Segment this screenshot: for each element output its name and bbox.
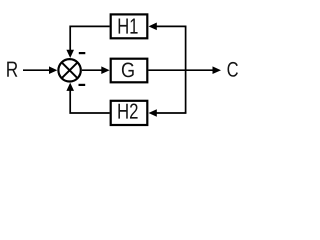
wire summing junction to block G — [82, 69, 102, 71]
summing junction S1 X diagonal 2 — [62, 63, 77, 78]
wire tap to H2 input — [156, 112, 185, 113]
arrowhead into summing junction bottom — [66, 83, 74, 91]
wire H1 output toward junction — [70, 26, 109, 50]
summing junction S1 circle — [58, 59, 80, 81]
wire tap to H1 input — [156, 26, 185, 27]
block H2 box — [111, 101, 148, 125]
summing junction S1 X diagonal 1 — [62, 63, 77, 78]
arrowhead into summing junction top — [66, 50, 74, 58]
block H2 label — [118, 104, 137, 119]
wire H2 output toward junction — [70, 90, 109, 113]
minus sign at bottom feedback input — [79, 84, 86, 86]
block H1 box — [111, 14, 148, 38]
block G label — [122, 63, 134, 78]
arrowhead into H1 — [149, 23, 157, 31]
arrowhead into summing junction left — [49, 66, 57, 74]
block H1 label — [119, 19, 138, 34]
node R label — [7, 62, 17, 77]
feedback tap vertical wire — [185, 26, 187, 113]
wire R to summing junction — [23, 69, 50, 71]
arrowhead into H2 — [149, 109, 157, 117]
arrowhead at C output — [213, 66, 222, 74]
block G box — [111, 59, 148, 83]
arrowhead into block G — [101, 66, 109, 74]
minus sign at top feedback input — [79, 52, 86, 54]
wire G output to C — [148, 69, 213, 71]
node C label — [228, 62, 238, 77]
